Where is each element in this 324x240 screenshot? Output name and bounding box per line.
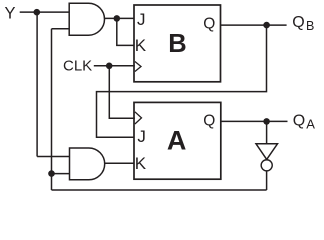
junction dot on Y wire (34, 9, 41, 16)
wire AND G1 output to J of U-B (105, 17, 135, 19)
clock input triangle of U-B (135, 62, 141, 72)
junction dot on AND G1 output (114, 15, 121, 22)
wire Q of U-B to QB label (221, 24, 287, 26)
wire QA junction down to inverter input (266, 121, 268, 143)
wire vertical feedback from inverter output net up to AND G1 input 2 (51, 29, 53, 190)
flip-flop U-B box (134, 5, 221, 82)
wire into AND G1 input 2 (52, 28, 70, 30)
flip-flop U-A box (134, 102, 221, 179)
svg-text:Q: Q (292, 14, 304, 31)
AND gate G2 (70, 148, 105, 180)
svg-text:A: A (306, 117, 315, 132)
inverter U3 bubble (261, 160, 272, 171)
clock input triangle of U-A (135, 112, 142, 124)
svg-text:K: K (135, 36, 147, 55)
wire bottom horizontal from inverter output to feedback vertical (52, 189, 267, 191)
svg-text:CLK: CLK (63, 58, 92, 75)
wire vertical from Y junction down to AND G2 input 1 (36, 12, 38, 156)
wire horizontal into AND G2 input 1 (37, 156, 69, 158)
svg-text:Y: Y (5, 5, 16, 23)
wire CLK to clock of U-B (94, 65, 135, 67)
svg-text:A: A (167, 126, 187, 156)
svg-text:Q: Q (293, 112, 305, 129)
wire Y to AND G1 input 1 (20, 11, 69, 13)
wire feedback QB down, left and into J of U-A (97, 25, 267, 137)
junction dot on CLK wire (106, 63, 113, 70)
svg-text:Q: Q (203, 16, 215, 33)
wire Q of U-A to QA label (221, 120, 288, 122)
wire from G1 output junction down and into K of U-B (117, 18, 134, 45)
inverter U3 triangle (256, 144, 278, 160)
wire inverter output down to bottom feedback wire (266, 171, 268, 190)
svg-text:Q: Q (203, 112, 215, 129)
svg-text:B: B (306, 19, 314, 33)
wire AND G2 output to K of U-A (105, 162, 134, 164)
svg-text:J: J (137, 10, 146, 29)
svg-text:B: B (168, 30, 186, 58)
wire horizontal into AND G2 input 2 (52, 173, 70, 175)
AND gate G1 (69, 3, 104, 35)
wire from CLK junction down and into clock of U-A (109, 66, 135, 118)
svg-text:K: K (135, 154, 147, 173)
svg-text:J: J (137, 127, 146, 146)
junction dot on feedback net at AND G2 input 2 (48, 170, 55, 177)
junction dot on QA wire (263, 118, 270, 125)
junction dot on QB wire (263, 22, 270, 29)
